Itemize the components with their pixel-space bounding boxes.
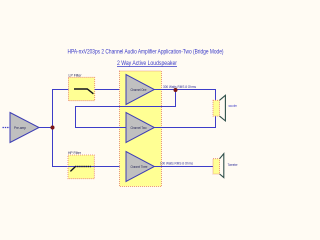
wire Channel Three output to tweeter [154,166,213,168]
wire Channel One output to woofer top [154,90,215,101]
svg-text:Channel One: Channel One [131,88,147,92]
loudspeaker module box [120,71,162,187]
wire through HP box [68,166,94,168]
wire HP filter to Channel Three [94,166,126,168]
wire preamp output [39,127,53,129]
wire Channel Two output to woofer bottom [154,116,215,127]
LP filter box [68,73,94,100]
op-amp Channel One [126,75,154,105]
svg-text:HP Filter: HP Filter [68,151,82,155]
wire bus vertical [52,90,54,167]
op-amp Channel Three [126,152,154,182]
svg-text:300 Watts RMS 8 Ohms: 300 Watts RMS 8 Ohms [163,85,196,89]
svg-text:Channel Two: Channel Two [131,126,147,130]
speaker woofer LS1 [213,95,238,121]
svg-text:woofer: woofer [229,104,238,108]
node junction dot A [51,126,55,130]
svg-text:Tweeter: Tweeter [228,163,239,167]
svg-text:LP Filter: LP Filter [69,73,83,77]
speaker tweeter LS2 [213,154,238,178]
svg-text:Pre-amp: Pre-amp [14,126,26,130]
node label: 2 Way Active Loudspeaker [117,61,177,67]
wire bridge loop from node B to Channel Two input [76,90,176,128]
wire LP filter to Channel One [95,89,126,91]
op-amp Channel Two [126,113,154,143]
svg-text:100 Watts RMS 8 Ohms: 100 Watts RMS 8 Ohms [160,162,193,166]
svg-text:2 Way Active Loudspeaker: 2 Way Active Loudspeaker [117,61,177,67]
svg-text:HPA-nxV203ps 2 Channel Audio A: HPA-nxV203ps 2 Channel Audio Amplifier A… [68,49,224,55]
wire input stub [3,127,11,129]
wire to HP filter [52,166,68,168]
HP filter box [68,151,94,179]
svg-text:Channel Three: Channel Three [131,165,148,169]
pre-amp U1 [10,113,39,143]
wire to LP filter [52,89,69,91]
node junction dot B [174,88,178,92]
